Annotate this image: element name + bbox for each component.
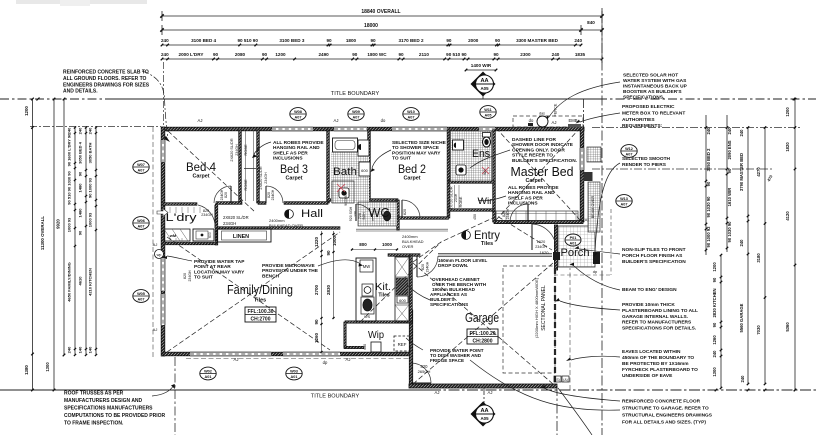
svg-text:BUILDER'S SPECIFICATION: BUILDER'S SPECIFICATION bbox=[622, 259, 686, 265]
right dim col3 bbox=[747, 127, 749, 384]
svg-text:REINFORCED CONCRETE FLOOR: REINFORCED CONCRETE FLOOR bbox=[622, 399, 701, 405]
svg-text:90: 90 bbox=[370, 38, 376, 43]
svg-text:240: 240 bbox=[67, 127, 72, 134]
FFL box garage bbox=[467, 329, 498, 344]
svg-text:1400 WIR: 1400 WIR bbox=[471, 63, 492, 68]
bed4 ceiling diagonal bbox=[168, 131, 255, 212]
svg-text:INSTANTANEOUS BACK UP: INSTANTANEOUS BACK UP bbox=[623, 84, 688, 90]
window master east bbox=[580, 148, 584, 170]
svg-text:1300: 1300 bbox=[45, 362, 50, 372]
svg-text:450mm OF THE BOUNDARY TO: 450mm OF THE BOUNDARY TO bbox=[622, 355, 694, 361]
leader microwave bbox=[318, 260, 359, 266]
linen closet bbox=[217, 229, 271, 242]
svg-text:A07: A07 bbox=[138, 298, 145, 302]
left dim 11300 overall bbox=[53, 99, 55, 390]
svg-text:PROVIDE WATER TAP: PROVIDE WATER TAP bbox=[194, 259, 245, 265]
svg-text:WC: WC bbox=[369, 205, 390, 220]
svg-text:840: 840 bbox=[587, 20, 595, 25]
north wall bbox=[163, 127, 584, 131]
svg-text:SELECTED SIZE NICHE: SELECTED SIZE NICHE bbox=[392, 140, 447, 146]
FFL box family bbox=[245, 307, 276, 322]
dimension row room widths 2 bbox=[162, 58, 602, 60]
svg-text:SPECIFICATIONS: SPECIFICATIONS bbox=[430, 302, 468, 307]
svg-text:1610 WIR: 1610 WIR bbox=[727, 188, 732, 207]
garage corner boxes bbox=[554, 376, 561, 382]
svg-text:120: 120 bbox=[354, 211, 358, 217]
title boundary bottom bbox=[0, 389, 430, 391]
svg-text:1835: 1835 bbox=[575, 52, 586, 57]
top extension verticals bbox=[601, 11, 603, 63]
window master north bbox=[479, 127, 495, 131]
wall bed3 east bbox=[327, 130, 330, 203]
svg-text:2830 KITCHEN: 2830 KITCHEN bbox=[712, 288, 717, 317]
svg-text:A05: A05 bbox=[485, 114, 492, 118]
svg-text:7030: 7030 bbox=[756, 325, 761, 335]
leader long cross 2 bbox=[470, 360, 620, 410]
robe east wall bbox=[257, 130, 260, 203]
svg-text:SECTIONAL PANEL: SECTIONAL PANEL bbox=[541, 285, 547, 331]
svg-text:Hall: Hall bbox=[301, 208, 323, 220]
svg-text:18840 OVERALL: 18840 OVERALL bbox=[361, 9, 400, 15]
bath niche 600 bbox=[359, 162, 370, 176]
south wall family bbox=[163, 352, 411, 356]
svg-text:1480: 1480 bbox=[78, 208, 83, 218]
svg-text:A01: A01 bbox=[205, 375, 212, 379]
window symbol W09 bbox=[348, 108, 364, 121]
svg-text:TO SHOWER SPACE: TO SHOWER SPACE bbox=[392, 145, 440, 151]
svg-text:EMB: EMB bbox=[568, 118, 577, 123]
svg-text:W09: W09 bbox=[352, 110, 360, 114]
svg-text:DROP DOWN.: DROP DOWN. bbox=[438, 263, 468, 268]
svg-text:Bed 3: Bed 3 bbox=[280, 164, 308, 176]
svg-text:METER BOX TO RELEVANT: METER BOX TO RELEVANT bbox=[622, 110, 685, 116]
svg-text:U/S: U/S bbox=[364, 315, 371, 319]
leader long cross 1 bbox=[558, 388, 592, 435]
svg-text:90 510 90: 90 510 90 bbox=[446, 52, 467, 57]
svg-text:1200: 1200 bbox=[24, 106, 29, 116]
svg-text:2000 L'DRY: 2000 L'DRY bbox=[179, 52, 204, 57]
hall north wall bbox=[216, 202, 242, 205]
dimension row bed widths bbox=[162, 44, 581, 46]
entry bulkhead line bbox=[356, 228, 448, 230]
porch beam column bbox=[588, 182, 600, 232]
left dim col6 bbox=[95, 128, 97, 356]
title boundary right vertical bbox=[601, 8, 603, 435]
leader eaves bbox=[571, 356, 620, 360]
svg-text:5360: 5360 bbox=[785, 322, 790, 332]
svg-text:A01: A01 bbox=[570, 242, 577, 246]
svg-text:AJ: AJ bbox=[435, 390, 440, 395]
svg-text:3050 BED 4: 3050 BED 4 bbox=[78, 141, 83, 164]
right dim col1 bbox=[705, 115, 707, 255]
extension line left corner bbox=[163, 62, 165, 126]
svg-text:A07: A07 bbox=[621, 203, 628, 207]
svg-text:1820: 1820 bbox=[785, 142, 790, 152]
svg-text:BENCH: BENCH bbox=[262, 273, 280, 279]
window family west 2 bbox=[161, 294, 165, 325]
svg-text:820: 820 bbox=[421, 264, 425, 270]
svg-text:FOR ALL DETAILS AND SIZES. (TY: FOR ALL DETAILS AND SIZES. (TYP) bbox=[622, 420, 706, 426]
garage door dashed guide bbox=[503, 266, 555, 373]
svg-text:FRIDGE SPACE: FRIDGE SPACE bbox=[430, 358, 464, 363]
svg-text:do: do bbox=[529, 118, 534, 123]
window family west bbox=[161, 258, 165, 291]
svg-text:1800 WC: 1800 WC bbox=[367, 52, 387, 57]
svg-text:4650 FAMILY/DINING: 4650 FAMILY/DINING bbox=[67, 262, 72, 301]
svg-text:Master Bed: Master Bed bbox=[511, 164, 574, 179]
ens south wall bbox=[449, 181, 495, 184]
svg-text:2490: 2490 bbox=[318, 52, 329, 57]
svg-text:800: 800 bbox=[359, 242, 367, 247]
leader appliances bbox=[406, 284, 430, 300]
svg-text:SHELF AS PER: SHELF AS PER bbox=[508, 195, 543, 201]
svg-text:3180: 3180 bbox=[756, 253, 761, 263]
svg-text:1260: 1260 bbox=[712, 335, 717, 345]
entry south-west walls bbox=[388, 254, 420, 257]
svg-text:(S): (S) bbox=[555, 378, 560, 382]
svg-text:4270: 4270 bbox=[756, 167, 761, 177]
svg-text:FFL:100.30: FFL:100.30 bbox=[247, 309, 273, 315]
door bed2 bbox=[401, 200, 403, 218]
svg-text:3100 BED 3: 3100 BED 3 bbox=[279, 38, 304, 43]
right dim col4 bbox=[764, 127, 766, 384]
svg-text:dp: dp bbox=[593, 269, 598, 274]
window symbol W08 bbox=[290, 108, 306, 121]
svg-text:90: 90 bbox=[398, 52, 404, 57]
svg-text:AJ: AJ bbox=[153, 327, 158, 332]
svg-text:PROVIDE 10mm THICK: PROVIDE 10mm THICK bbox=[622, 302, 675, 308]
svg-text:240: 240 bbox=[67, 346, 72, 353]
bath south wall bbox=[328, 199, 398, 202]
garage west wall bbox=[409, 310, 412, 386]
hall south wall bbox=[217, 227, 340, 230]
window family south bbox=[190, 352, 271, 356]
leader roof trusses bbox=[152, 384, 175, 396]
window symbol W03 bottom bbox=[286, 367, 302, 380]
west arrow marker bbox=[157, 209, 168, 217]
svg-text:A07: A07 bbox=[408, 116, 415, 120]
svg-text:2X620 SL/DR: 2X620 SL/DR bbox=[259, 166, 263, 189]
svg-text:90: 90 bbox=[712, 322, 717, 327]
leader solar bbox=[549, 82, 620, 117]
svg-text:SGH: SGH bbox=[362, 212, 366, 220]
bath tub bbox=[333, 138, 358, 152]
svg-text:90: 90 bbox=[78, 171, 83, 176]
svg-text:Tiles: Tiles bbox=[254, 298, 266, 304]
svg-text:DASHED LINE FOR: DASHED LINE FOR bbox=[512, 137, 557, 143]
bath east wall bbox=[368, 130, 371, 200]
svg-text:234GH: 234GH bbox=[264, 172, 268, 184]
family dining diagonals bbox=[167, 232, 340, 352]
svg-text:W02: W02 bbox=[204, 369, 212, 373]
svg-text:PROPOSED ELECTRIC: PROPOSED ELECTRIC bbox=[622, 104, 675, 110]
svg-text:1800: 1800 bbox=[346, 38, 357, 43]
svg-text:1200: 1200 bbox=[275, 52, 286, 57]
svg-text:REF: REF bbox=[398, 342, 407, 347]
svg-text:A05: A05 bbox=[480, 86, 489, 91]
svg-text:ROOF TRUSSES AS PER: ROOF TRUSSES AS PER bbox=[64, 391, 124, 397]
svg-text:AJ: AJ bbox=[488, 390, 493, 395]
svg-text:AUTHORITIES: AUTHORITIES bbox=[622, 117, 655, 123]
svg-text:2000: 2000 bbox=[468, 38, 479, 43]
door bed4 bbox=[230, 186, 232, 203]
ens shower red marks bbox=[482, 167, 489, 174]
svg-text:STRUCTURAL ENGINEERS DRAWINGS: STRUCTURAL ENGINEERS DRAWINGS bbox=[622, 413, 713, 419]
svg-text:A05: A05 bbox=[480, 416, 489, 421]
corner arrow concrete slab bbox=[163, 136, 170, 142]
leader water point bbox=[406, 338, 423, 350]
svg-text:L'dry: L'dry bbox=[166, 212, 198, 224]
master east wall bbox=[580, 127, 584, 222]
bath red marks bbox=[337, 184, 345, 192]
svg-text:AJ: AJ bbox=[234, 357, 239, 362]
svg-text:Tiles: Tiles bbox=[481, 241, 493, 247]
ens vanity bbox=[453, 140, 464, 150]
svg-text:600: 600 bbox=[361, 168, 368, 173]
svg-text:AA: AA bbox=[480, 408, 488, 414]
svg-text:SPECIFICATIONS.: SPECIFICATIONS. bbox=[623, 95, 664, 101]
leader plasterboard bbox=[560, 301, 620, 310]
svg-text:ENGINEERS DRAWINGS FOR SIZES: ENGINEERS DRAWINGS FOR SIZES bbox=[63, 82, 150, 88]
svg-text:ALL GROUND FLOORS. REFER TO: ALL GROUND FLOORS. REFER TO bbox=[63, 76, 147, 82]
window symbol W07 left bbox=[133, 161, 149, 174]
window W08 north bbox=[272, 127, 313, 131]
door master bbox=[527, 204, 529, 222]
svg-text:UNDERSIDE OF EAVE: UNDERSIDE OF EAVE bbox=[622, 373, 673, 379]
svg-text:1000 93: 1000 93 bbox=[67, 217, 72, 232]
wp circle west wall bbox=[155, 250, 164, 259]
svg-text:920 SGH: 920 SGH bbox=[349, 206, 353, 221]
window symbol W05 left bbox=[133, 290, 149, 303]
svg-text:1620: 1620 bbox=[540, 250, 550, 255]
svg-text:Wir: Wir bbox=[478, 196, 493, 207]
svg-text:das: das bbox=[539, 112, 545, 116]
svg-text:EAVES LOCATED WITHIN: EAVES LOCATED WITHIN bbox=[622, 349, 681, 355]
svg-text:240: 240 bbox=[574, 38, 582, 43]
svg-text:3050 BATH: 3050 BATH bbox=[88, 142, 93, 163]
svg-text:W06: W06 bbox=[137, 219, 145, 223]
svg-text:CH:2700: CH:2700 bbox=[250, 317, 270, 323]
wc east wall bbox=[397, 200, 400, 230]
svg-text:PLASTERBOARD LINING TO ALL: PLASTERBOARD LINING TO ALL bbox=[622, 308, 698, 314]
leader robes master bbox=[478, 196, 506, 201]
svg-text:REINFORCED CONCRETE SLAB TO: REINFORCED CONCRETE SLAB TO bbox=[63, 70, 149, 76]
svg-text:W13: W13 bbox=[620, 197, 628, 201]
left dim col4 bbox=[74, 128, 76, 356]
svg-text:90: 90 bbox=[727, 168, 732, 173]
ens floor grid bbox=[451, 131, 492, 181]
kitchen island bench bbox=[356, 258, 376, 321]
right dim col2 bbox=[726, 115, 728, 252]
svg-text:P01: P01 bbox=[570, 236, 577, 240]
svg-text:SPECIFICATIONS MANUFACTURERS: SPECIFICATIONS MANUFACTURERS bbox=[64, 406, 153, 412]
svg-text:90 510 90 1030 90: 90 510 90 1030 90 bbox=[67, 171, 72, 205]
svg-text:FYRCHECK PLASTERBOARD TO: FYRCHECK PLASTERBOARD TO bbox=[622, 367, 698, 373]
svg-text:W05: W05 bbox=[137, 292, 145, 296]
svg-text:(A): (A) bbox=[563, 378, 568, 382]
right dim col1 lower bbox=[720, 255, 722, 388]
svg-text:1000: 1000 bbox=[382, 242, 393, 247]
svg-text:COMPUTATIONS TO BE PROVIDED PR: COMPUTATIONS TO BE PROVIDED PRIOR bbox=[64, 413, 166, 419]
svg-text:BEAM OVER: BEAM OVER bbox=[591, 195, 595, 218]
left dim outer 1200 bbox=[32, 99, 34, 390]
window symbol W10 bbox=[403, 108, 419, 121]
svg-text:820: 820 bbox=[224, 192, 228, 198]
meter box circle bbox=[537, 116, 548, 127]
svg-text:BE PROTECTED BY 1X16mm: BE PROTECTED BY 1X16mm bbox=[622, 361, 689, 367]
svg-text:Carpet: Carpet bbox=[525, 178, 542, 184]
svg-text:WATER SYSTEM WITH GAS: WATER SYSTEM WITH GAS bbox=[623, 78, 687, 84]
ens shower head bbox=[456, 165, 466, 175]
svg-text:TITLE BOUNDARY: TITLE BOUNDARY bbox=[311, 394, 360, 400]
dimension row 18000 bbox=[162, 29, 602, 31]
svg-text:AJ: AJ bbox=[346, 357, 351, 362]
svg-text:W08: W08 bbox=[294, 110, 302, 114]
svg-text:90: 90 bbox=[493, 52, 499, 57]
window family south 2 bbox=[283, 352, 340, 356]
svg-text:wp: wp bbox=[157, 253, 162, 257]
svg-text:A01: A01 bbox=[291, 375, 298, 379]
svg-text:W11: W11 bbox=[484, 108, 492, 112]
right dims extension lines bbox=[592, 127, 800, 129]
svg-text:234GH: 234GH bbox=[426, 261, 430, 272]
svg-text:A07: A07 bbox=[353, 116, 360, 120]
svg-text:1000 93: 1000 93 bbox=[88, 212, 93, 227]
svg-text:3170 BED 2: 3170 BED 2 bbox=[398, 38, 423, 43]
svg-text:AND DETAILS.: AND DETAILS. bbox=[63, 89, 98, 95]
svg-text:1200: 1200 bbox=[785, 107, 790, 117]
svg-text:W07: W07 bbox=[137, 163, 145, 167]
wir south wall bbox=[449, 209, 495, 212]
porch eave dashes bbox=[554, 209, 611, 275]
svg-text:wM: wM bbox=[169, 233, 177, 238]
svg-text:240: 240 bbox=[712, 350, 717, 358]
svg-text:2300: 2300 bbox=[520, 52, 531, 57]
bath floor grid bbox=[331, 152, 369, 203]
svg-text:ALL ROBES PROVIDE: ALL ROBES PROVIDE bbox=[273, 140, 324, 146]
svg-text:240: 240 bbox=[739, 239, 744, 247]
svg-text:PROVISION UNDER THE: PROVISION UNDER THE bbox=[262, 268, 319, 274]
svg-text:AJ: AJ bbox=[198, 118, 203, 123]
right dim col5 bbox=[794, 99, 796, 390]
svg-text:234GH: 234GH bbox=[220, 189, 224, 200]
svg-text:234GH: 234GH bbox=[506, 208, 510, 219]
garage south wall bbox=[409, 384, 557, 388]
svg-text:MW: MW bbox=[363, 264, 370, 269]
svg-text:265GH: 265GH bbox=[418, 369, 431, 374]
door garage-house bbox=[411, 363, 431, 383]
svg-text:W10: W10 bbox=[407, 110, 415, 114]
svg-text:OPENING ONLY. DOOR: OPENING ONLY. DOOR bbox=[512, 147, 565, 153]
entry porch east wall bbox=[554, 225, 557, 270]
ens toilet bbox=[483, 133, 491, 138]
svg-text:1480: 1480 bbox=[78, 183, 83, 193]
svg-text:BULKHEAD OVER: BULKHEAD OVER bbox=[269, 223, 303, 228]
svg-text:234GH: 234GH bbox=[188, 270, 192, 282]
leader water tap bbox=[167, 256, 192, 261]
leader concrete slab bbox=[142, 71, 168, 138]
garage sectional door dashed bbox=[554, 268, 556, 382]
svg-text:A07: A07 bbox=[138, 225, 145, 229]
bath cabinet icon bbox=[358, 140, 369, 156]
svg-text:W03: W03 bbox=[290, 369, 298, 373]
svg-text:REQUIREMENTS:: REQUIREMENTS: bbox=[622, 123, 663, 129]
svg-text:1300: 1300 bbox=[712, 367, 717, 377]
svg-text:A07: A07 bbox=[295, 116, 302, 120]
svg-text:FENCE: FENCE bbox=[554, 103, 558, 116]
porch piers bbox=[553, 252, 560, 260]
svg-text:Carpet: Carpet bbox=[192, 174, 209, 180]
svg-text:234GH: 234GH bbox=[223, 221, 236, 226]
master diagonals bbox=[496, 128, 580, 220]
wc pan bbox=[383, 211, 390, 221]
svg-text:TO SUIT: TO SUIT bbox=[194, 275, 213, 281]
bath shower bbox=[332, 181, 354, 203]
master south wall bbox=[494, 220, 583, 223]
svg-text:Kit.: Kit. bbox=[375, 281, 391, 293]
svg-text:18000: 18000 bbox=[364, 23, 378, 29]
svg-text:HANGING RAIL AND: HANGING RAIL AND bbox=[508, 190, 555, 196]
svg-text:90: 90 bbox=[326, 38, 332, 43]
garage north beam line bbox=[438, 253, 552, 255]
svg-text:240: 240 bbox=[706, 127, 711, 135]
svg-text:90 510 90: 90 510 90 bbox=[237, 38, 258, 43]
svg-text:240: 240 bbox=[727, 127, 732, 135]
svg-text:240: 240 bbox=[78, 127, 83, 134]
svg-text:LOCATION MAY VARY: LOCATION MAY VARY bbox=[194, 269, 245, 275]
svg-text:1000: 1000 bbox=[332, 235, 337, 246]
svg-text:3050 BED 2: 3050 BED 2 bbox=[706, 148, 711, 171]
wip door box bbox=[371, 342, 381, 352]
svg-text:2X820 SL/DR: 2X820 SL/DR bbox=[223, 215, 249, 220]
svg-text:1620: 1620 bbox=[537, 240, 545, 244]
svg-text:234GH: 234GH bbox=[201, 213, 213, 217]
ldry south wall bbox=[163, 242, 217, 245]
svg-text:1220: 1220 bbox=[314, 236, 319, 247]
leader niche bbox=[372, 150, 391, 168]
svg-text:3300 MASTER BED: 3300 MASTER BED bbox=[516, 38, 559, 43]
svg-text:90: 90 bbox=[314, 319, 319, 325]
svg-text:Family/Dining: Family/Dining bbox=[227, 282, 293, 297]
svg-text:POINT AT REAR: POINT AT REAR bbox=[194, 264, 231, 270]
extension line to left columns bbox=[30, 126, 161, 128]
ldry door bbox=[214, 205, 216, 228]
leader robes bed3 bbox=[254, 142, 271, 154]
master west wall bbox=[493, 130, 496, 222]
svg-text:AJ: AJ bbox=[153, 242, 158, 247]
leader non-slip bbox=[579, 249, 620, 254]
svg-text:4120: 4120 bbox=[785, 211, 790, 221]
svg-text:ROBE: ROBE bbox=[243, 179, 248, 191]
svg-text:LINEN: LINEN bbox=[233, 234, 249, 240]
porch slab tiles bbox=[558, 226, 595, 267]
svg-text:90: 90 bbox=[78, 230, 83, 235]
gray smudge top edge bbox=[16, 0, 147, 4]
door bed3 bbox=[265, 186, 267, 203]
svg-text:4210 KITCHEN: 4210 KITCHEN bbox=[88, 268, 93, 296]
svg-text:3790 MASTER BED: 3790 MASTER BED bbox=[739, 153, 744, 191]
svg-text:W12: W12 bbox=[625, 147, 633, 151]
svg-text:90 1600 L'DRY 90: 90 1600 L'DRY 90 bbox=[67, 133, 72, 167]
service dashdot vertical bbox=[174, 357, 176, 435]
svg-text:FFL:100.20: FFL:100.20 bbox=[469, 331, 495, 337]
svg-text:234GH: 234GH bbox=[271, 189, 275, 200]
ldry trough bbox=[193, 229, 214, 241]
svg-text:MANUFACTURERS DESIGN AND: MANUFACTURERS DESIGN AND bbox=[64, 398, 143, 404]
svg-text:3100 BED 4: 3100 BED 4 bbox=[191, 38, 216, 43]
svg-text:NON-SLIP TILES TO FRONT: NON-SLIP TILES TO FRONT bbox=[622, 247, 686, 253]
porch oval symbol bbox=[565, 234, 581, 246]
